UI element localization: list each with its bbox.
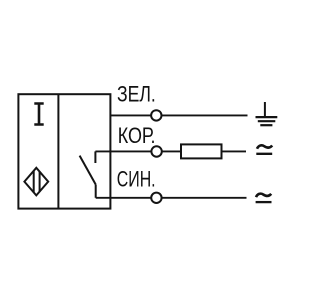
body divider <box>57 94 59 208</box>
switch lower lead <box>95 185 97 198</box>
wire KOR terminal to resistor <box>162 150 181 152</box>
ground symbol <box>256 102 278 125</box>
terminal circle 1 <box>151 110 161 120</box>
svg-text:ЗЕЛ.: ЗЕЛ. <box>117 82 156 107</box>
proximity sensor diamond symbol <box>24 168 48 196</box>
wire SIN right segment <box>162 197 247 199</box>
AC supply symbol row 3 <box>256 194 272 202</box>
inductive element letter I <box>34 102 43 126</box>
switch blade <box>80 156 96 185</box>
svg-text:КОР.: КОР. <box>118 123 156 148</box>
wire KOR from switch to terminal <box>95 150 151 152</box>
load resistor <box>181 144 222 158</box>
svg-text:СИН.: СИН. <box>117 167 156 192</box>
switch fixed contact <box>94 151 96 163</box>
wire ZEL left segment <box>110 114 151 116</box>
AC supply symbol row 2 <box>256 145 272 153</box>
terminal circle 3 <box>151 193 161 203</box>
sensor body box <box>18 94 110 208</box>
wire ZEL right segment <box>162 114 248 116</box>
wire SIN from switch to terminal <box>96 197 152 199</box>
terminal circle 2 <box>151 146 161 156</box>
wire resistor to AC <box>222 150 247 152</box>
